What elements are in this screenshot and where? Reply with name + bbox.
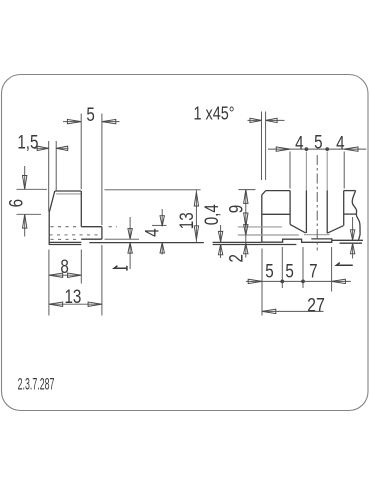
ext 1x45 right x=265.6: [265, 112, 267, 181]
right profile top edge left part: [266, 190, 290, 192]
long strip bottom line middle: [89, 242, 204, 244]
svg-text:8: 8: [60, 256, 68, 278]
hidden dashed line y=234.9 across body and flange: [50, 234, 102, 236]
left profile flange top: [81, 226, 102, 228]
ext 9 top y=189.6: [238, 189, 255, 191]
dimension 1 x45 chamfer: [248, 119, 285, 121]
svg-text:13: 13: [175, 212, 197, 229]
svg-text:2.3.7.287: 2.3.7.287: [18, 375, 55, 394]
ext 454 left x=290: [289, 152, 291, 189]
svg-text:1,5: 1,5: [17, 131, 38, 153]
dimension 9 and 2 (right profile heights): [245, 190, 247, 258]
ext 5-left x=81.2: [80, 114, 82, 190]
dimension 8 (body width): [49, 274, 81, 276]
dimension 5 (flange width, top left): [63, 121, 120, 123]
ext 454 right x=344.2: [343, 152, 345, 189]
ext 6-bottom y=214.3: [17, 213, 42, 215]
slot flare A: [290, 224, 306, 233]
dimension 4 (strip thickness): [161, 209, 163, 255]
dimension 1,5 (slant offset): [34, 147, 69, 149]
ghost line y=235.0 into right profile: [238, 234, 299, 236]
dimension 13 (left profile width): [49, 303, 102, 305]
dimension 13 (total height): [195, 190, 197, 242]
ext 13 right x=101.9: [101, 245, 103, 316]
right profile bottom edge left part: [262, 239, 332, 242]
ext 8/13 left x=48.9: [48, 250, 50, 316]
svg-text:1 x45°: 1 x45°: [194, 103, 235, 124]
svg-text:5: 5: [314, 131, 322, 153]
ext 6-top y=189.3: [17, 188, 48, 190]
slot wall B x=306.4: [305, 191, 307, 234]
right profile bottom line under 1-dim: [340, 242, 363, 244]
ext 1,5-right x=56.2: [55, 141, 57, 190]
slot centerline: [316, 155, 318, 251]
left profile flange right edge: [101, 227, 103, 240]
ext 1mid top y=239.2: [105, 238, 140, 240]
right profile mid ledge line y=214.3: [262, 213, 290, 215]
dimension chain 4,5,4 (slot widths): [268, 148, 366, 150]
slot wall A x=290.1: [289, 191, 291, 225]
left profile slanted left edge: [49, 191, 55, 245]
slot flare B: [327, 226, 343, 234]
ghost line y=226.9 into right profile: [238, 226, 282, 228]
hidden dashed line y=226.7 inside body: [51, 226, 81, 228]
svg-text:6: 6: [5, 199, 27, 207]
right profile bottom edge right of notch: [332, 239, 363, 241]
hidden dashes right of flange y=226.7: [109, 226, 117, 228]
dimension 1 (right notch depth): [352, 217, 354, 259]
left profile top edge second (grey) line: [56, 193, 81, 195]
long bottom line lower y=244.5: [49, 244, 81, 246]
channel floor: [304, 234, 330, 236]
svg-text:7: 7: [309, 260, 317, 282]
break (wavy) line right end: [352, 191, 360, 240]
svg-text:13: 13: [64, 285, 81, 307]
svg-text:4: 4: [141, 228, 163, 237]
hidden dashed line y=239.4 inside body: [51, 238, 78, 240]
left profile top edge: [55, 190, 82, 192]
ext 454 b2 grey x=327.2: [326, 152, 328, 191]
ext 557 x=282.3: [281, 247, 283, 288]
svg-text:9: 9: [225, 205, 247, 213]
svg-text:5: 5: [265, 260, 273, 282]
dimension 6 (left profile upper height): [24, 166, 26, 237]
svg-text:27: 27: [307, 294, 325, 316]
slot wall D x=343.7: [343, 191, 345, 226]
ext 13mid top y=189.8: [105, 189, 201, 191]
right profile left edge: [261, 195, 263, 242]
ext 557 x=303: [302, 247, 304, 288]
right ledge y=214.1: [344, 213, 357, 215]
slot wall C x=327.2: [326, 191, 328, 234]
long bottom line upper y=242.4: [49, 241, 81, 243]
ext 1,5-left x=48.7: [48, 141, 50, 212]
ext 454 b1 grey x=306.4: [305, 152, 307, 191]
dimension 27 (overall to break): [262, 310, 324, 312]
svg-text:2: 2: [225, 254, 247, 262]
ext 1x45 left x=261.5: [261, 112, 263, 181]
ext 557 right x=331.6: [331, 247, 333, 292]
left profile right edge: [80, 191, 82, 227]
dimension chain 5,5,7 (bottom notch): [246, 280, 351, 282]
svg-text:0,4: 0,4: [200, 204, 222, 225]
dimension 1 (flange bottom offset): [129, 217, 131, 269]
left profile flange bottom: [81, 238, 102, 240]
svg-text:5: 5: [285, 260, 293, 282]
svg-text:4: 4: [295, 132, 304, 154]
ext 5-right x=101.9: [101, 114, 103, 226]
dimension 0,4 (bottom step): [220, 225, 222, 258]
svg-text:4: 4: [336, 132, 345, 154]
right profile top edge right part: [344, 190, 356, 192]
ext 557/27 left x=262: [261, 249, 263, 316]
chamfer 1x45 top-left: [262, 191, 266, 195]
svg-text:5: 5: [86, 104, 94, 126]
extension dash for 4-dim y=225.4: [152, 224, 167, 226]
sheet border: [2, 75, 369, 411]
ext 8 right x=81.3: [80, 250, 82, 284]
